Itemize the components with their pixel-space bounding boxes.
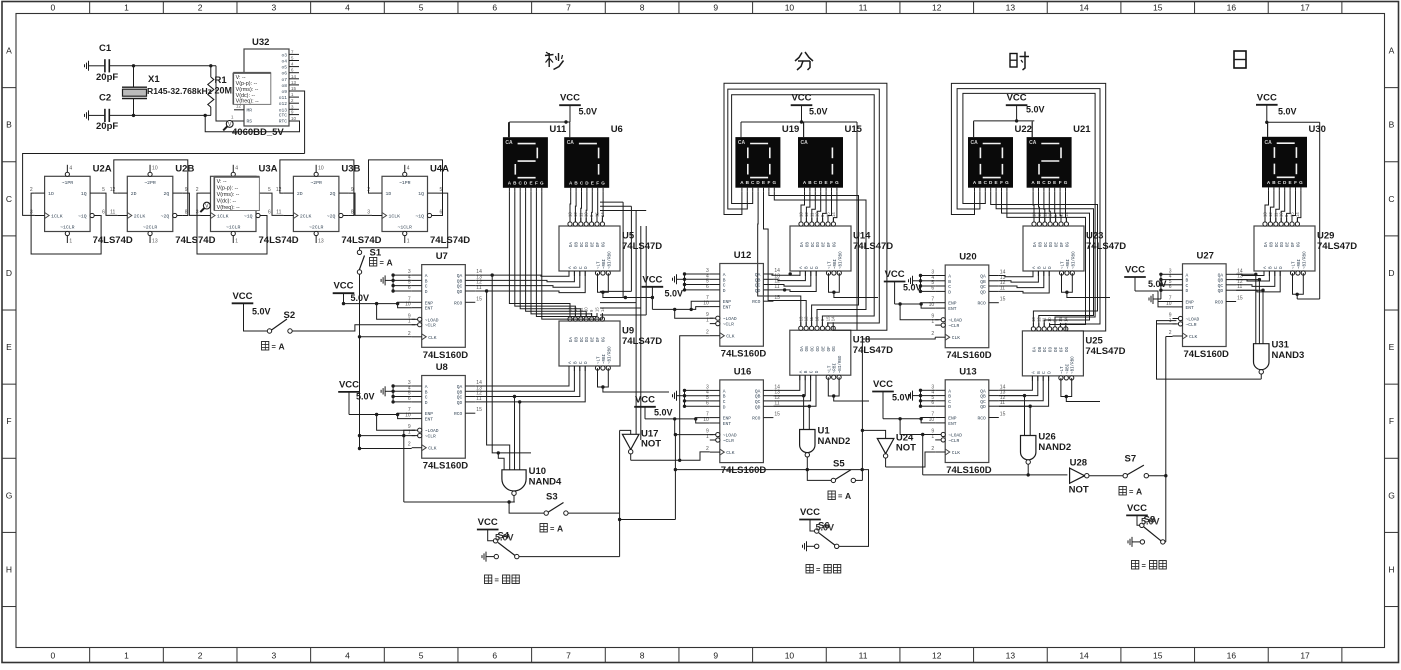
svg-text:U9: U9 [622,326,634,337]
svg-text:2: 2 [931,331,934,337]
svg-text:E: E [529,180,532,185]
svg-text:OC: OC [811,242,816,248]
svg-text:OG: OG [832,346,837,352]
svg-text:G: G [1064,180,1068,185]
svg-text:OD: OD [816,242,821,248]
wire VCC to U7 ENP/ENT [342,293,415,319]
svg-text:U25: U25 [1085,335,1103,346]
svg-text:OD: OD [1049,347,1054,353]
svg-text:74LS47D: 74LS47D [853,345,893,356]
svg-text:o13: o13 [279,107,288,113]
decoder U18 [790,316,893,380]
svg-text:~1Q: ~1Q [244,213,253,219]
label 日 (day) [1234,51,1246,68]
power VCC U27 [1124,265,1166,290]
svg-text:14: 14 [1079,651,1089,661]
svg-text:~CLR: ~CLR [425,434,436,440]
svg-text:OC: OC [580,337,585,343]
svg-text:A: A [845,491,851,501]
switch S4 (SPDT) [482,530,519,562]
svg-text:5.0V: 5.0V [1278,107,1297,117]
svg-text:OB: OB [805,346,810,352]
svg-text:~RBI: ~RBI [1066,363,1070,374]
svg-text:12: 12 [276,187,282,193]
svg-text:OG: OG [1065,347,1070,353]
display U22 [968,122,1032,191]
svg-text:MR: MR [247,108,253,114]
svg-text:6: 6 [268,209,271,215]
svg-text:C: C [1186,283,1189,289]
switch S5 [831,459,855,483]
svg-text:~RBI: ~RBI [834,258,838,269]
svg-text:CLK: CLK [952,335,961,341]
svg-text:5: 5 [419,651,424,661]
svg-text:CLK: CLK [428,335,437,341]
svg-text:OA: OA [569,337,574,343]
svg-text:o9: o9 [281,89,287,95]
svg-text:G: G [1005,180,1009,185]
wire NAND3 output [1157,321,1262,380]
svg-text:OF: OF [827,346,832,352]
svg-text:CA: CA [801,140,809,146]
svg-text:B: B [1186,278,1189,284]
power VCC U7 [333,281,369,303]
ground U13 inputs [909,391,921,401]
capacitor C1 [96,43,134,83]
wires U20 outputs to U23 inputs [999,271,1049,293]
wires U30 segments to U29 [1265,191,1301,222]
svg-text:B: B [723,394,726,400]
svg-text:3: 3 [271,651,276,661]
bus seconds to minutes [600,202,646,440]
svg-text:16: 16 [1227,651,1237,661]
svg-text:~LOAD: ~LOAD [1186,317,1200,323]
wires U7 outputs to U5 inputs [475,271,585,293]
svg-text:0: 0 [50,651,55,661]
counter U13 [929,366,1006,476]
decoder U9 [559,307,662,371]
power VCC U20 [884,269,922,293]
svg-text:A: A [1031,371,1036,374]
power VCC S6 [799,507,821,520]
svg-text:R1: R1 [215,75,228,86]
svg-text:R145-32.768kHz: R145-32.768kHz [147,86,212,96]
wires U12 outputs to U14 inputs [772,271,816,292]
counter U12 [703,250,780,360]
svg-text:NAND2: NAND2 [818,436,851,447]
svg-text:VCC: VCC [560,93,580,104]
wire VCC to U20 ENP/ENT [895,282,939,320]
svg-text:OE: OE [821,346,826,352]
svg-text:RCO: RCO [752,299,761,305]
svg-text:A: A [6,46,12,56]
svg-text:~RBI: ~RBI [834,363,838,374]
svg-text:QD: QD [980,404,986,410]
svg-text:E: E [591,180,594,185]
crystal X1 [122,66,212,116]
svg-text:14: 14 [831,316,836,321]
svg-text:o4: o4 [281,59,287,65]
svg-text:74LS160D: 74LS160D [946,350,992,361]
svg-text:5.0V: 5.0V [1141,517,1160,527]
ground at C2 [85,110,97,120]
svg-text:13: 13 [291,80,296,85]
svg-text:U2B: U2B [175,163,194,174]
wire S5 riser [839,337,935,546]
svg-text:A: A [425,273,428,279]
svg-text:S5: S5 [833,459,845,470]
svg-text:2: 2 [408,331,411,337]
svg-text:12: 12 [110,187,116,193]
svg-text:ENP: ENP [723,416,732,422]
svg-text:15: 15 [1000,412,1006,418]
svg-text:CLK: CLK [726,334,735,340]
svg-text:OG: OG [601,242,606,248]
svg-text:20pF: 20pF [96,121,118,132]
svg-text:OA: OA [1264,242,1269,248]
svg-text:1CLK: 1CLK [217,213,229,219]
wire U32 o9 to divider chain [23,91,305,215]
svg-text:1D: 1D [48,191,54,197]
svg-text:VCC: VCC [642,274,662,285]
svg-text:CA: CA [1265,140,1273,146]
svg-text:10: 10 [785,651,795,661]
svg-text:1CLK: 1CLK [51,213,63,219]
svg-text:U14: U14 [853,231,871,242]
svg-text:ENP: ENP [425,300,434,306]
svg-text:10: 10 [152,165,158,171]
svg-text:QC: QC [457,284,463,290]
svg-text:A: A [948,274,951,280]
svg-text:F: F [767,180,770,185]
svg-text:D: D [1186,288,1189,294]
svg-text:G: G [773,180,777,185]
svg-text:ENT: ENT [425,417,434,423]
svg-text:A: A [799,266,804,269]
svg-text:OA: OA [1033,242,1038,248]
node C2-X1 [132,114,135,117]
svg-text:~2CLR: ~2CLR [309,224,324,230]
svg-text:14: 14 [1079,3,1089,13]
svg-text:VCC: VCC [800,507,820,518]
svg-text:NOT: NOT [641,438,661,449]
svg-text:A: A [279,341,285,351]
svg-text:~LT: ~LT [598,356,602,364]
svg-text:ENP: ENP [948,301,957,307]
svg-text:E: E [995,180,998,185]
svg-text:7: 7 [566,3,571,13]
svg-text:1: 1 [235,239,238,245]
svg-text:16: 16 [1227,3,1237,13]
svg-text:C: C [948,284,951,290]
svg-text:U19: U19 [782,124,799,135]
svg-text:C: C [1042,371,1047,374]
svg-text:U8: U8 [436,362,448,373]
svg-text:U10: U10 [529,466,546,477]
decoder U5 [559,212,662,276]
svg-text:VCC: VCC [1007,93,1027,104]
wire U4A Q to S1 [360,193,448,250]
S5 key label [828,491,851,501]
svg-text:OE: OE [591,242,596,248]
svg-text:A: A [1136,486,1142,496]
svg-text:2: 2 [706,330,709,336]
svg-text:G: G [601,180,605,185]
svg-text:5.0V: 5.0V [1026,105,1045,115]
svg-text:RCO: RCO [752,416,761,422]
power VCC hours [1006,93,1045,115]
svg-text:~LT: ~LT [598,261,602,269]
svg-text:15: 15 [825,316,830,321]
svg-text:2: 2 [198,651,203,661]
probe XMM1 [223,121,233,131]
svg-text:11: 11 [276,209,281,215]
svg-text:QC: QC [980,284,986,290]
svg-text:~LT: ~LT [828,365,832,373]
counter U7 [405,251,482,361]
wires U8 outputs to U9 inputs [475,366,585,470]
svg-text:15: 15 [774,295,780,301]
svg-text:8: 8 [640,3,645,13]
wires U27 outputs to NAND3 [1236,273,1265,344]
svg-text:U21: U21 [1073,124,1091,135]
svg-text:~1PR: ~1PR [399,180,411,186]
svg-text:~LOAD: ~LOAD [425,317,439,323]
svg-text:ENT: ENT [1186,305,1195,311]
svg-text:OF: OF [827,242,832,248]
svg-text:8: 8 [640,651,645,661]
counter U27 [1166,250,1243,360]
svg-text:o8: o8 [281,83,287,89]
svg-text:74LS74D: 74LS74D [430,235,470,246]
svg-text:C: C [579,361,584,364]
wires U7 branches to NAND4 [487,275,531,470]
svg-text:NOT: NOT [896,443,916,454]
svg-text:B: B [573,266,578,269]
power VCC S4 [477,517,499,530]
svg-text:2: 2 [1169,330,1172,336]
svg-text:QC: QC [1218,283,1224,289]
svg-text:5.0V: 5.0V [903,283,922,293]
svg-text:OE: OE [591,337,596,343]
svg-text:VCC: VCC [478,517,498,528]
svg-text:V(dc): --: V(dc): -- [217,198,237,204]
svg-text:OF: OF [1059,347,1064,353]
svg-text:U3A: U3A [259,163,278,174]
svg-text:~BI/RBO: ~BI/RBO [1302,251,1307,269]
ground U27 inputs [1149,294,1161,304]
svg-text:QD: QD [980,289,986,295]
svg-text:1Q: 1Q [81,191,87,197]
svg-text:~CLR: ~CLR [425,323,436,329]
svg-text:C: C [425,284,428,290]
svg-text:U1: U1 [818,426,831,437]
svg-text:B: B [425,389,428,395]
decoder U29 [1254,212,1357,276]
svg-text:U2A: U2A [93,163,112,174]
svg-text:OC: OC [1044,242,1049,248]
svg-text:4: 4 [235,165,238,171]
S7 key label [1119,486,1142,496]
svg-text:E: E [1389,342,1395,352]
svg-text:F: F [1389,416,1394,426]
svg-text:o12: o12 [279,101,288,107]
svg-text:2: 2 [198,3,203,13]
node C1-X1 [132,64,135,67]
wire U7 ABCD tie [391,273,411,292]
svg-text:6: 6 [102,209,105,215]
svg-text:S1: S1 [370,248,382,259]
switch S7 [1089,454,1149,478]
svg-text:OA: OA [1032,347,1037,353]
wire U20 ABCD tie [919,274,935,293]
svg-text:G: G [540,180,544,185]
wire U27 LOAD stubs [1176,318,1178,320]
svg-text:ENP: ENP [425,411,434,417]
svg-text:QA: QA [457,384,463,390]
svg-text:U31: U31 [1272,340,1290,351]
svg-text:U13: U13 [959,366,976,377]
svg-text:ENT: ENT [723,421,732,427]
svg-text:CA: CA [567,140,575,146]
wires U6 segments to U5 [570,191,603,222]
svg-text:C: C [1043,266,1048,269]
svg-text:U6: U6 [611,124,623,135]
svg-text:U4A: U4A [430,163,449,174]
svg-text:2D: 2D [297,191,303,197]
svg-text:A: A [1389,46,1395,56]
svg-text:=: = [272,342,277,351]
svg-text:F: F [535,180,538,185]
svg-text:13: 13 [152,239,158,245]
svg-text:=: = [1142,561,1147,570]
svg-text:ENP: ENP [948,416,957,422]
switch S8 (SPDT) [1128,515,1166,547]
svg-text:D: D [584,266,589,269]
svg-text:74LS47D: 74LS47D [1317,241,1357,252]
S2 key label [262,341,285,351]
svg-text:G: G [1388,490,1395,500]
svg-text:VCC: VCC [333,281,353,292]
switch S1 [357,248,382,275]
svg-text:1D: 1D [386,191,392,197]
seconds riser to U17 [620,430,631,513]
svg-text:OE: OE [1055,242,1060,248]
svg-text:QC: QC [980,399,986,405]
svg-text:2CLK: 2CLK [300,213,312,219]
wires U16 outputs to U18 inputs [773,375,816,406]
svg-text:15: 15 [291,86,296,91]
svg-text:RCO: RCO [454,411,463,417]
svg-text:C: C [579,266,584,269]
svg-text:C: C [1388,194,1394,204]
svg-text:OD: OD [1049,242,1054,248]
svg-text:VCC: VCC [885,269,905,280]
svg-text:B: B [1037,371,1042,374]
svg-text:D: D [948,404,951,410]
wire U5 LT/RBI to VCC [598,273,655,299]
svg-text:5.0V: 5.0V [665,289,684,299]
svg-text:74LS74D: 74LS74D [93,235,133,246]
svg-text:A: A [1032,266,1037,269]
probe XMM2 [200,202,210,212]
svg-text:~1CLR: ~1CLR [398,224,413,230]
svg-text:V: --: V: -- [217,179,227,185]
svg-text:D: D [815,370,820,373]
svg-text:74LS160D: 74LS160D [423,350,469,361]
svg-text:~CLR: ~CLR [723,438,734,444]
svg-text:CA: CA [1029,140,1037,146]
svg-text:F: F [596,180,599,185]
svg-text:11: 11 [859,651,868,661]
flip-flop U2A [30,163,133,246]
wire S1 to counter clocks [358,274,415,450]
svg-text:U16: U16 [734,366,751,377]
svg-text:5.0V: 5.0V [1148,279,1167,289]
svg-text:4060BD_5V: 4060BD_5V [232,127,284,138]
svg-text:74LS160D: 74LS160D [1184,349,1230,360]
svg-text:F: F [6,416,11,426]
svg-text:~1CLR: ~1CLR [226,224,241,230]
wire U16 ABCD tie [683,389,710,408]
svg-text:D: D [584,361,589,364]
flip-flop U4A [367,163,470,246]
svg-text:~LOAD: ~LOAD [425,428,439,434]
svg-text:2: 2 [931,446,934,452]
svg-text:OE: OE [1286,242,1291,248]
svg-text:o7: o7 [281,77,287,83]
svg-text:QA: QA [1218,272,1224,278]
svg-text:14: 14 [291,74,296,79]
svg-text:QD: QD [755,404,761,410]
svg-text:U30: U30 [1309,124,1326,135]
wire NAND2 output [674,433,864,520]
svg-text:C: C [425,395,428,401]
svg-text:ENT: ENT [948,306,957,312]
wire VCC to U12 ENP/ENT [652,287,713,318]
flip-flop U3B [276,163,382,246]
svg-text:~2PR: ~2PR [310,180,322,186]
svg-text:C: C [6,194,12,204]
display U11 [503,122,567,191]
svg-text:12: 12 [932,651,942,661]
svg-text:=: = [550,524,555,533]
svg-text:4: 4 [407,165,410,171]
svg-text:6: 6 [492,651,497,661]
svg-text:7: 7 [566,651,571,661]
svg-text:QA: QA [755,388,761,394]
svg-text:2: 2 [196,187,199,193]
svg-text:1CLK: 1CLK [389,213,401,219]
svg-text:G: G [1299,180,1303,185]
svg-text:QB: QB [457,389,463,395]
label 分 (minutes) [795,52,813,70]
svg-text:9: 9 [713,651,718,661]
svg-text:D: D [425,400,428,406]
decoder U23 [1023,212,1126,276]
svg-text:QA: QA [755,272,761,278]
wire U23 LT tie [1062,273,1111,297]
decoder U14 [790,212,893,276]
svg-text:G: G [835,180,839,185]
svg-text:S3: S3 [546,492,558,503]
svg-text:QD: QD [755,288,761,294]
resistor R1 [208,66,239,116]
svg-text:U3B: U3B [341,163,360,174]
ground U20 inputs [909,276,921,286]
U2B feedback loop [114,160,188,216]
svg-text:OC: OC [1275,242,1280,248]
